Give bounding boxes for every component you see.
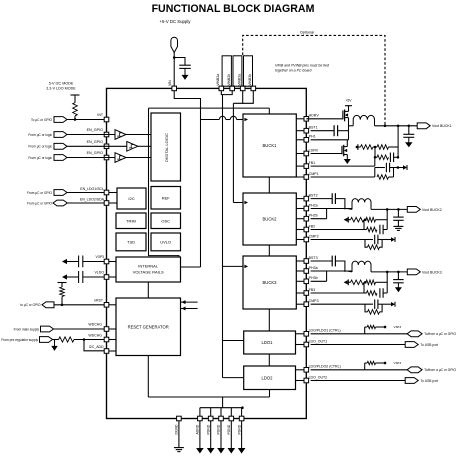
svg-text:LDO/PLDO1 (CTRL): LDO/PLDO1 (CTRL): [309, 329, 341, 333]
inductor L3: [352, 261, 371, 272]
stub wires BUCK3: [296, 260, 304, 262]
svg-text:VINB3b: VINB3b: [248, 74, 252, 86]
svg-text:PGND: PGND: [206, 424, 210, 434]
arrow into BUCK1: [244, 118, 248, 122]
pin EN_GPIO3: [104, 155, 109, 160]
flag EN_GPIO2: [54, 143, 67, 149]
svg-text:OSC: OSC: [161, 219, 170, 224]
IC outline U1: [107, 88, 307, 418]
svg-text:FUNCTIONAL BLOCK DIAGRAM: FUNCTIONAL BLOCK DIAGRAM: [152, 3, 315, 15]
svg-text:I2C_ADD: I2C_ADD: [89, 345, 104, 349]
wire plug to VIN pin: [173, 52, 175, 86]
svg-text:WDCHG: WDCHG: [88, 333, 102, 337]
wire BUCK3 to LDO1: [268, 309, 270, 331]
divider rise to rail BUCK2: [386, 208, 389, 211]
schmitt buffer U4: [115, 153, 126, 163]
svg-text:PH2a: PH2a: [309, 203, 318, 207]
svg-text:together on a PC board: together on a PC board: [275, 69, 312, 73]
INT pull-up resistor R1: [71, 94, 80, 96]
svg-text:VLDO: VLDO: [94, 271, 104, 275]
svg-text:INTERNAL: INTERNAL: [138, 264, 159, 269]
svg-text:V3P3: V3P3: [95, 255, 104, 259]
pin DGND: [177, 416, 182, 421]
FB1 wire: [311, 165, 375, 167]
BUCK1 feedback divider: [356, 146, 359, 149]
schmitt buffer U3: [127, 142, 138, 152]
pin PGND: [208, 416, 213, 421]
pin PGND: [219, 416, 224, 421]
wire EN_GPIO3: [67, 157, 115, 159]
svg-text:FB1: FB1: [309, 161, 316, 165]
wire RESET GENERATOR to bottom bus: [147, 356, 149, 398]
svg-text:From µC or logic: From µC or logic: [28, 156, 52, 160]
VINB3 rail vertical: [232, 103, 234, 202]
wire VINB2 pins join: [221, 91, 232, 95]
ground branch WDCHG: [54, 340, 56, 344]
wire VIN rail to BUCK1 with hops: [201, 119, 220, 121]
pin CMP3: [304, 302, 309, 307]
block LDO1: [244, 331, 296, 354]
svg-text:EN_LDO1/SCL: EN_LDO1/SCL: [80, 187, 104, 191]
svg-text:EN_GPIO: EN_GPIO: [87, 151, 104, 155]
pin LDO_OUT2: [304, 378, 309, 383]
ground DGND bars: [174, 447, 184, 449]
flag EN_LDO1: [54, 190, 67, 196]
FB1 row resistor capacitor: [374, 147, 376, 157]
flag LDO1 out: [405, 342, 418, 348]
resistor R WDCHG: [59, 337, 74, 342]
FB3 wire: [311, 292, 364, 294]
block LDO2: [244, 366, 296, 390]
block TSD: [116, 233, 146, 251]
svg-text:V3P3: V3P3: [394, 325, 402, 329]
svg-text:V3P3: V3P3: [394, 361, 402, 365]
pin EN_GPIO1: [104, 132, 109, 137]
PH2a wire: [311, 208, 352, 210]
pin FB3: [304, 291, 309, 296]
pin PH3b: [304, 279, 309, 284]
supply plug J1: [171, 37, 178, 52]
pins VINB2a VINB2b VINB3a VINB3b: [219, 86, 224, 91]
block RESET GENERATOR: [116, 298, 181, 356]
stub wires BUCK1 box to pins: [296, 118, 304, 120]
pin PH1: [304, 138, 309, 143]
pin AGND: [198, 416, 203, 421]
wire BUCK1 to BUCK2: [268, 177, 270, 193]
CMP2 network: [311, 239, 373, 241]
BST1 capacitor: [311, 130, 335, 132]
capacitor C VLDO: [78, 271, 80, 283]
LDO1 ctrl wire: [311, 333, 408, 335]
svg-text:BST1: BST1: [309, 126, 318, 130]
block UVLO: [151, 233, 181, 251]
ground arrow PGND: [228, 448, 236, 454]
pin CMP2: [304, 237, 309, 242]
flag LDO2 out: [405, 378, 418, 384]
LDO2 pull-up resistor: [364, 363, 366, 370]
flag to uC INT: [54, 117, 67, 123]
svg-text:I2C: I2C: [128, 196, 134, 201]
pin V3P3: [104, 259, 109, 264]
pin EN_LDO1/SCL: [104, 190, 109, 195]
pin HDRV: [304, 117, 309, 122]
block INTERNAL VOLTAGE RAILS: [116, 257, 181, 282]
flag LDO2 ctrl bidirectional: [407, 367, 422, 373]
block REF: [151, 187, 181, 210]
pin PH2b: [304, 216, 309, 221]
wire VINB3 pins join: [233, 91, 242, 104]
svg-text:VOLTAGE RAILS: VOLTAGE RAILS: [133, 270, 164, 275]
block OSC: [151, 213, 181, 229]
wire bus to BUCK1 top: [268, 108, 270, 114]
svg-text:Vout BUCK2: Vout BUCK2: [422, 208, 442, 212]
schmitt buffer U2: [115, 130, 126, 140]
svg-text:VINB2b: VINB2b: [227, 74, 231, 86]
divider rise to rail BUCK3: [386, 271, 389, 274]
svg-text:VINB and PVINB pins must be ti: VINB and PVINB pins must be tied: [275, 64, 330, 68]
pin LDO/PLDO2 CTRL: [304, 368, 309, 373]
flag Vout BUCK3: [407, 269, 420, 275]
flag nRST output: [42, 302, 54, 308]
pin PH2a: [304, 206, 309, 211]
switch node vertical BUCK1: [348, 118, 350, 140]
svg-text:EN_GPIO: EN_GPIO: [87, 140, 104, 144]
svg-text:Vout BUCK1: Vout BUCK1: [432, 124, 452, 128]
svg-text:LDO_OUT1: LDO_OUT1: [309, 339, 328, 343]
BST3 capacitor: [311, 260, 333, 262]
feedback divider BUCK3: [344, 280, 348, 284]
FB3 RC: [367, 291, 378, 296]
internal VIN rail vertical: [200, 120, 202, 268]
pin EN_LDO2/SDA: [104, 201, 109, 206]
pin LDO_OUT1: [304, 342, 309, 347]
svg-text:LDO/PLDO2 (CTRL): LDO/PLDO2 (CTRL): [309, 365, 341, 369]
pin INT: [104, 117, 109, 122]
INT wire to flag: [67, 119, 104, 121]
svg-text:From main supply: From main supply: [14, 327, 40, 331]
input capacitor C_IN: [179, 64, 191, 66]
stub wires LDO1: [296, 333, 305, 335]
svg-text:5-V I2C MODE: 5-V I2C MODE: [49, 82, 74, 86]
stub wires LDO2: [296, 369, 305, 371]
block BUCK1: [243, 114, 296, 177]
divider tap vertical: [397, 125, 400, 128]
reset generator input arrows: [181, 301, 198, 303]
svg-text:+5-V DC Supply: +5-V DC Supply: [160, 19, 192, 24]
wire VINB3 rail to BUCK2: [233, 202, 243, 204]
svg-text:3.3-V LDO MODE: 3.3-V LDO MODE: [46, 87, 76, 91]
LDO2 ctrl wire: [311, 369, 408, 371]
svg-text:VIN: VIN: [168, 80, 172, 86]
flag EN_GPIO3: [54, 155, 67, 161]
LDO1 out wire: [311, 344, 406, 346]
wire to input cap: [174, 58, 185, 66]
ground arrow PGND: [217, 448, 225, 454]
svg-text:EN_GPIO: EN_GPIO: [87, 128, 104, 132]
pin PGND: [239, 416, 244, 421]
svg-text:HDRV: HDRV: [309, 114, 320, 118]
pin nRST: [104, 303, 109, 308]
pin CMP1: [304, 175, 309, 180]
PH1 wire: [311, 139, 349, 141]
junction node on VIN wire: [173, 56, 176, 59]
svg-text:to µC or GPIO: to µC or GPIO: [20, 303, 41, 307]
svg-text:From µC or GPIO: From µC or GPIO: [27, 202, 53, 206]
pin BST2: [304, 196, 309, 201]
block DIGITAL LOGIC: [151, 113, 181, 181]
wire bus to ground bracket: [222, 397, 224, 408]
flag WDCHG2: [40, 337, 53, 343]
FB2 RC: [367, 227, 378, 232]
svg-text:BUCK3: BUCK3: [263, 280, 278, 285]
svg-text:DGND: DGND: [175, 424, 179, 435]
svg-text:CMP2: CMP2: [309, 234, 319, 238]
pin LDRV: [304, 151, 309, 156]
pin BST1: [304, 128, 309, 133]
ground arrow PGND: [207, 448, 215, 454]
high side NMOS Q1: [306, 118, 343, 120]
wire VINB2 rail to BUCK3: [223, 265, 244, 267]
svg-text:VINB2a: VINB2a: [216, 74, 220, 86]
internal top bus: [149, 107, 270, 109]
inductor L1: [349, 125, 354, 127]
wire EN_GPIO1: [67, 134, 115, 136]
svg-text:TSD: TSD: [127, 240, 135, 245]
pin WDCHG2: [104, 337, 109, 342]
nRST pull-up resistor: [58, 282, 67, 284]
inductor L2: [352, 199, 371, 210]
svg-text:BST2: BST2: [309, 193, 318, 197]
pin FB1: [304, 164, 309, 169]
pin PGND: [229, 416, 234, 421]
flag EN_LDO2 bidirectional: [53, 200, 67, 206]
block BUCK2: [243, 193, 296, 245]
flag LDO1 ctrl bidirectional: [407, 331, 422, 337]
svg-text:FB3: FB3: [309, 288, 316, 292]
PH3b wire: [311, 280, 327, 282]
output capacitor BUCK2: [397, 208, 400, 211]
svg-text:From µC or logic: From µC or logic: [28, 133, 52, 137]
svg-text:LDO_OUT2: LDO_OUT2: [309, 375, 328, 379]
ground input cap: [184, 68, 186, 75]
svg-text:REF: REF: [162, 196, 171, 201]
svg-text:VINB3a: VINB3a: [237, 74, 241, 86]
PH3a wire: [311, 270, 352, 272]
BST2 capacitor: [311, 198, 333, 200]
wire IVR to RESET GENERATOR: [147, 282, 149, 298]
svg-text:+5V: +5V: [345, 98, 352, 102]
LDO1 pull-up resistor: [364, 327, 366, 334]
svg-text:To/from a µC or GPIO: To/from a µC or GPIO: [424, 368, 456, 372]
svg-text:To µC or GPIO: To µC or GPIO: [31, 118, 52, 122]
svg-text:CMP1: CMP1: [309, 172, 319, 176]
svg-text:PH3b: PH3b: [309, 276, 318, 280]
output capacitor BUCK1: [408, 125, 411, 128]
stub wires BUCK2: [296, 198, 304, 200]
pin BST3: [304, 259, 309, 264]
svg-text:LDRV: LDRV: [309, 148, 319, 152]
wire BUCK2 to BUCK3: [268, 245, 270, 256]
svg-text:To USB port: To USB port: [420, 343, 438, 347]
ground arrow AGND: [196, 448, 204, 454]
flag WDCHG1: [41, 326, 54, 332]
block BUCK3: [243, 256, 296, 309]
LDO2 out wire: [311, 380, 406, 382]
pin I2C_ADD: [104, 349, 109, 354]
svg-text:From pre-regulator supply: From pre-regulator supply: [1, 338, 38, 342]
svg-text:DIGITAL LOGIC: DIGITAL LOGIC: [164, 133, 169, 162]
feedback divider BUCK2: [344, 218, 348, 222]
svg-text:Optional: Optional: [300, 30, 314, 34]
pin FB2: [304, 227, 309, 232]
svg-text:LDO1: LDO1: [262, 340, 274, 345]
svg-text:WDCHG: WDCHG: [88, 323, 102, 327]
svg-text:PH2b: PH2b: [309, 214, 318, 218]
wire LDO1 to LDO2: [268, 354, 270, 366]
low side NMOS Q2: [311, 153, 342, 155]
svg-text:PGND: PGND: [237, 424, 241, 434]
svg-text:PH1: PH1: [309, 135, 316, 139]
optional dashed wire: [243, 35, 385, 125]
internal bus left vertical: [149, 108, 180, 257]
pin VIN: [172, 86, 177, 91]
ground arrow PGND: [238, 448, 246, 454]
svg-text:BUCK2: BUCK2: [263, 217, 278, 222]
wire VINB2 rail to LDO1: [223, 340, 244, 342]
svg-text:To/from a µC or GPIO: To/from a µC or GPIO: [424, 332, 456, 336]
svg-text:From µC or GPIO: From µC or GPIO: [27, 191, 53, 195]
internal ground bracket: [200, 407, 243, 409]
pin VLDO: [104, 275, 109, 280]
wire VINB2 rail to LDO2: [223, 377, 244, 379]
PH2b wire: [311, 218, 327, 220]
flag Vout BUCK2: [407, 207, 420, 213]
wire resistor to I2C_ADD: [83, 338, 86, 341]
block TRIM: [116, 213, 146, 229]
svg-text:From µC or logic: From µC or logic: [28, 145, 52, 149]
wire VIN to internal rail: [174, 91, 200, 120]
svg-text:PGND: PGND: [227, 424, 231, 434]
ground low side FET: [346, 157, 348, 160]
output capacitor BUCK3: [397, 271, 400, 274]
pin EN_GPIO2: [104, 144, 109, 149]
bottom internal bus: [148, 396, 269, 398]
VINB2 rail vertical: [222, 95, 224, 378]
wire IVR to VIN rail: [181, 266, 201, 268]
CMP1 compensation network: [311, 176, 375, 178]
svg-text:To USB port: To USB port: [420, 379, 438, 383]
svg-text:TRIM: TRIM: [126, 219, 136, 224]
wire EN_GPIO2: [67, 145, 127, 147]
svg-text:BUCK1: BUCK1: [263, 143, 278, 148]
svg-text:LDO2: LDO2: [262, 376, 274, 381]
svg-text:INT: INT: [97, 113, 104, 117]
pin PH3a: [304, 269, 309, 274]
pin WDCHG1: [104, 327, 109, 332]
svg-text:RESET GENERATOR: RESET GENERATOR: [128, 325, 169, 330]
flag Vout BUCK1: [417, 123, 430, 129]
svg-text:Vout BUCK3: Vout BUCK3: [422, 270, 442, 274]
svg-text:PH3a: PH3a: [309, 266, 318, 270]
wire bus to LDO2 bottom: [269, 390, 271, 398]
svg-text:FB2: FB2: [309, 224, 316, 228]
svg-text:EN_LDO2/SDA: EN_LDO2/SDA: [80, 197, 105, 201]
FB2 wire: [311, 229, 364, 231]
external tie bars between VINB pins: [222, 56, 231, 86]
svg-text:BST3: BST3: [309, 256, 318, 260]
svg-text:AGND: AGND: [196, 424, 200, 434]
svg-text:CMP3: CMP3: [309, 299, 319, 303]
capacitor C V3P3: [78, 256, 80, 268]
CMP3 network: [311, 303, 373, 305]
pin LDO/PLDO1 CTRL: [304, 332, 309, 337]
dashed junction: [384, 125, 387, 128]
block I2C: [117, 188, 146, 209]
svg-text:nRST: nRST: [94, 299, 104, 303]
svg-text:UVLO: UVLO: [160, 240, 171, 245]
flag EN_GPIO1: [54, 132, 67, 138]
svg-text:PGND: PGND: [217, 424, 221, 434]
